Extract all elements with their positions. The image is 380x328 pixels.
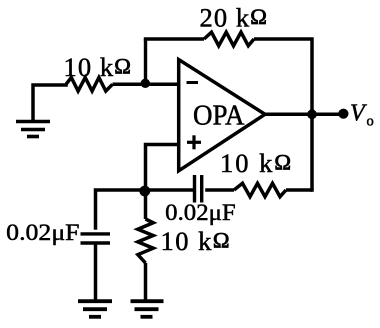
wire R3 to capacitor C1 [203,188,234,192]
wire node A up to top feedback rail [144,39,147,84]
resistor R1 10 kOhm (horizontal, left) [66,78,113,92]
node A junction dot [141,79,150,88]
node B junction dot [139,186,150,197]
op-amp U1 triangle [179,60,265,171]
wire C2 down to ground [94,243,98,300]
resistor R3 10 kOhm (horizontal, bottom) [234,183,286,196]
wire top rail right segment and down to output node [254,39,312,114]
wire node B left to capacitor branch [96,190,146,232]
wire from ground up to left corner [33,84,66,121]
wire from R1 to op-amp minus input through node A [113,83,179,87]
svg-text:20 kΩ: 20 kΩ [200,3,267,33]
op-amp minus sign [187,81,199,84]
capacitor C2 0.02uF (horizontal plates) [79,230,113,247]
output node junction dot [307,109,317,119]
wire op-amp output to terminal [265,113,341,117]
wire bottom right horizontal to R3 [286,188,312,192]
svg-text:0.02μF: 0.02μF [165,200,236,226]
svg-text:10 kΩ: 10 kΩ [64,52,131,82]
svg-text:10 kΩ: 10 kΩ [161,226,230,256]
ground symbol (below C2) [78,301,112,317]
resistor R4 10 kOhm (vertical) [138,219,153,263]
svg-text:0.02μF: 0.02μF [6,220,79,246]
output terminal dot [338,109,348,119]
svg-text:OPA: OPA [193,100,245,132]
resistor R2 20 kOhm (horizontal, top feedback) [204,32,254,46]
wire top rail left segment [144,37,204,41]
wire output node down right side [310,114,314,190]
ground symbol (below R4) [131,301,164,317]
wire node B up and right to op-amp plus input [146,145,179,191]
ground symbol (left, top branch) [16,122,50,137]
capacitor C1 0.02uF (vertical plates) [191,173,205,205]
wire C1 to node B [146,188,194,192]
op-amp plus sign [187,135,201,149]
wire node B down to R4 [144,190,148,219]
svg-text:10 kΩ: 10 kΩ [220,148,291,178]
wire R4 down to ground [144,263,148,300]
svg-text:V: V [350,100,367,126]
svg-text:o: o [367,113,374,129]
